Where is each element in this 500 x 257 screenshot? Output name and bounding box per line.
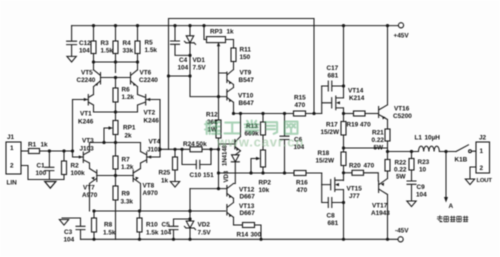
svg-text:10µH: 10µH	[425, 135, 441, 142]
svg-text:R18: R18	[318, 150, 330, 157]
svg-text:J2: J2	[479, 135, 487, 142]
transistor VT6	[131, 62, 159, 95]
svg-text:VT14: VT14	[348, 88, 364, 95]
svg-text:1: 1	[480, 148, 484, 155]
svg-text:1.5k: 1.5k	[145, 47, 158, 54]
wire bootstrap loop right	[312, 19, 315, 116]
transistor VT8	[133, 169, 158, 212]
capacitor C12	[67, 26, 92, 57]
ground (input)	[45, 182, 56, 189]
svg-text:B647: B647	[239, 100, 255, 107]
wire C1/R2 ground run	[21, 166, 64, 180]
svg-text:VT6: VT6	[140, 70, 152, 77]
svg-text:VT7: VT7	[83, 185, 95, 192]
svg-text:2: 2	[10, 163, 14, 170]
svg-text:VT1: VT1	[80, 111, 92, 118]
resistor R7	[113, 143, 134, 176]
resistor R12	[206, 112, 221, 139]
svg-text:2k: 2k	[125, 133, 133, 140]
svg-text:C17: C17	[327, 65, 339, 72]
resistor R10	[137, 211, 159, 239]
potentiometer RP2	[249, 150, 271, 194]
svg-text:104: 104	[161, 230, 172, 237]
resistor R1	[21, 142, 49, 154]
svg-text:VT9: VT9	[240, 70, 252, 77]
ground (C12)	[67, 56, 76, 62]
transistor VT11	[219, 114, 241, 155]
svg-text:A970: A970	[82, 192, 98, 199]
-45V terminal	[395, 228, 409, 242]
ground (C3)	[59, 220, 68, 226]
svg-text:681: 681	[328, 73, 339, 80]
JFET VT1	[73, 95, 94, 126]
svg-text:VT3: VT3	[82, 138, 94, 145]
svg-text:RP2: RP2	[259, 180, 272, 187]
svg-text:VD3: VD3	[224, 170, 230, 182]
svg-text:+45V: +45V	[394, 33, 410, 40]
svg-text:R11: R11	[240, 47, 252, 54]
transistor VT5	[77, 62, 101, 95]
svg-text:R17: R17	[326, 122, 338, 129]
svg-text:5W: 5W	[396, 174, 407, 181]
svg-text:104: 104	[64, 237, 75, 244]
svg-text:K246: K246	[144, 118, 160, 125]
svg-text:151: 151	[203, 172, 214, 179]
resistor R6	[113, 78, 134, 113]
JFET VT4	[141, 139, 162, 169]
resistor R20	[342, 163, 378, 182]
svg-text:RP1: RP1	[123, 125, 136, 132]
watermark line 1	[205, 121, 297, 134]
svg-text:470: 470	[297, 187, 308, 194]
svg-text:1: 1	[10, 145, 14, 152]
svg-text:C2240: C2240	[77, 77, 96, 84]
svg-text:VT4: VT4	[149, 139, 161, 146]
svg-text:J77: J77	[349, 193, 360, 200]
wire VT1 gate riser	[72, 100, 74, 152]
wire VD1 node to VT10 base	[169, 55, 227, 98]
svg-text:1k: 1k	[227, 29, 235, 36]
inductor L1	[388, 135, 457, 152]
resistor R8	[92, 211, 116, 239]
svg-text:R4: R4	[123, 40, 132, 47]
svg-text:D667: D667	[240, 210, 256, 217]
potentiometer RP1	[104, 112, 136, 143]
resistor R21	[372, 129, 391, 152]
resistor R5	[135, 26, 157, 62]
svg-text:15/2W: 15/2W	[321, 129, 340, 136]
wire upper mid rail	[232, 112, 322, 115]
transistor VT13	[227, 203, 255, 226]
svg-text:VT17: VT17	[372, 203, 388, 210]
transistor VT9	[227, 70, 254, 88]
svg-text:-45V: -45V	[395, 228, 409, 235]
wire input node	[48, 149, 83, 157]
transistor VT12	[190, 184, 255, 203]
resistor R24	[175, 141, 219, 152]
svg-text:1.5k: 1.5k	[103, 230, 116, 237]
svg-text:C10: C10	[190, 172, 202, 179]
capacitor C17	[322, 65, 345, 91]
svg-text:7.5V: 7.5V	[198, 230, 212, 237]
svg-text:C2240: C2240	[139, 77, 158, 84]
zener VD2	[184, 189, 211, 240]
svg-text:VD2: VD2	[198, 222, 211, 229]
ground (J2)	[465, 179, 474, 185]
ground (C9)	[407, 201, 416, 207]
svg-text:A1943: A1943	[371, 210, 390, 217]
MOSFET VT15	[322, 173, 363, 200]
wire source rail lower pair	[90, 141, 141, 144]
label protection circuit	[437, 215, 468, 222]
resistor R22	[385, 152, 407, 181]
svg-text:A: A	[449, 203, 454, 210]
svg-text:470: 470	[360, 122, 371, 129]
wire VT5/VT6 base tie	[101, 77, 131, 79]
svg-text:R12: R12	[206, 112, 218, 119]
relay contact K1B	[444, 145, 476, 164]
svg-text:D667: D667	[240, 194, 256, 201]
wire -45V rail	[81, 238, 398, 241]
wire J2 pin2 to ground	[470, 167, 476, 179]
svg-text:R8: R8	[104, 222, 113, 229]
svg-text:1.2k: 1.2k	[121, 164, 134, 171]
svg-text:R22: R22	[395, 160, 407, 167]
svg-text:R24: R24	[183, 141, 195, 148]
svg-text:R14: R14	[237, 232, 249, 239]
svg-text:VD1: VD1	[193, 57, 206, 64]
resistor R17	[321, 122, 347, 149]
svg-text:J1: J1	[7, 134, 15, 141]
svg-text:R9: R9	[122, 191, 131, 198]
wire to protection node A	[444, 152, 454, 211]
svg-text:www.cavr.cn: www.cavr.cn	[216, 135, 304, 150]
MOSFET VT14	[322, 86, 365, 114]
svg-text:1.5k: 1.5k	[101, 48, 114, 55]
svg-text:A970: A970	[143, 190, 159, 197]
wire VT14 drain	[343, 26, 345, 98]
svg-text:R2: R2	[71, 163, 80, 170]
transistor VT17	[371, 179, 390, 240]
svg-text:R5: R5	[145, 40, 154, 47]
svg-text:10: 10	[419, 167, 427, 174]
resistor R11	[231, 40, 251, 70]
wire +45V rail	[72, 24, 399, 27]
resistor R15	[294, 95, 307, 117]
svg-text:VT10: VT10	[238, 93, 254, 100]
capacitor C1	[36, 151, 54, 180]
svg-text:R10: R10	[146, 222, 158, 229]
resistor R19	[344, 111, 378, 129]
wire lower mid rail (gate drive)	[219, 171, 322, 174]
svg-text:C5: C5	[162, 222, 171, 229]
resistor R23	[409, 152, 430, 182]
svg-text:R1: R1	[28, 142, 37, 149]
svg-text:470: 470	[295, 102, 306, 109]
resistor R16	[294, 171, 308, 195]
svg-text:1k: 1k	[41, 142, 49, 149]
svg-text:10k: 10k	[259, 187, 270, 194]
svg-text:C4: C4	[179, 57, 188, 64]
svg-text:104: 104	[178, 65, 189, 72]
svg-text:470: 470	[364, 163, 375, 170]
svg-text:1k: 1k	[161, 178, 169, 185]
capacitor C5	[161, 217, 192, 239]
wire R17/R18 to output	[342, 146, 388, 149]
svg-text:VT13: VT13	[239, 203, 255, 210]
svg-text:VT8: VT8	[143, 183, 155, 190]
svg-text:R6: R6	[122, 87, 131, 94]
wire bootstrap loop left/top	[167, 19, 314, 151]
svg-text:2: 2	[480, 165, 484, 172]
wire feedback riser	[158, 100, 168, 158]
svg-text:0.22: 0.22	[394, 167, 407, 174]
svg-text:R25: R25	[159, 170, 171, 177]
svg-text:100: 100	[36, 170, 47, 177]
svg-text:LIN: LIN	[7, 180, 18, 187]
JFET VT2	[138, 87, 161, 125]
wire mid rail (VT13 base)	[92, 209, 225, 212]
svg-text:300: 300	[251, 232, 262, 239]
svg-text:681: 681	[328, 220, 339, 227]
svg-text:L1: L1	[415, 135, 423, 142]
svg-text:C3: C3	[64, 229, 73, 236]
resistor R25	[159, 149, 178, 184]
svg-text:R15: R15	[294, 95, 306, 102]
resistor R9	[113, 176, 133, 240]
wire VT7/VT8 base tie	[97, 174, 133, 177]
svg-text:R16: R16	[296, 180, 308, 187]
svg-text:LOUT: LOUT	[477, 178, 493, 184]
resistor R4	[113, 26, 134, 62]
diode VD3 1N4148	[223, 144, 240, 183]
svg-text:R7: R7	[122, 157, 131, 164]
resistor R3	[91, 26, 113, 62]
wire source rail upper pair	[94, 110, 138, 113]
svg-text:C8: C8	[327, 213, 336, 220]
svg-text:R3: R3	[101, 40, 110, 47]
svg-text:R20: R20	[349, 163, 361, 170]
JFET VT3	[79, 138, 94, 169]
svg-text:150: 150	[240, 54, 251, 61]
capacitor C6	[280, 114, 305, 174]
svg-text:VT5: VT5	[81, 70, 93, 77]
svg-text:R21: R21	[372, 130, 384, 137]
svg-text:15/2W: 15/2W	[316, 158, 335, 165]
svg-text:7.5V: 7.5V	[193, 65, 207, 72]
svg-text:VT2: VT2	[144, 110, 156, 117]
transistor VT7	[82, 169, 98, 212]
svg-text:VT16: VT16	[394, 106, 410, 113]
ground (R25)	[170, 182, 179, 188]
wire collector node VT5/VT6	[92, 60, 139, 72]
svg-text:K214: K214	[349, 95, 365, 102]
resistor R13	[245, 114, 266, 151]
svg-text:K246: K246	[78, 119, 94, 126]
+45V terminal	[394, 23, 410, 40]
svg-text:R19: R19	[347, 122, 359, 129]
transistor VT10	[227, 88, 254, 114]
svg-text:104: 104	[79, 48, 90, 55]
svg-text:33k: 33k	[123, 48, 134, 55]
svg-text:3.3k: 3.3k	[121, 199, 134, 206]
resistor R18	[316, 148, 347, 181]
capacitor C3	[62, 218, 85, 244]
capacitor C4	[171, 26, 191, 72]
connector J2	[476, 135, 492, 185]
capacitor C9	[407, 181, 427, 201]
svg-text:C5200: C5200	[393, 113, 412, 120]
svg-text:C9: C9	[417, 184, 426, 191]
wire VAS column	[217, 47, 227, 191]
potentiometer RP3	[204, 26, 234, 47]
transistor VT16	[379, 26, 413, 129]
svg-text:B547: B547	[239, 77, 255, 84]
wire output node	[386, 150, 413, 153]
capacitor C8	[322, 185, 344, 227]
wire VT15 source to rail	[342, 190, 345, 240]
svg-text:50k: 50k	[196, 141, 207, 148]
svg-text:0.22: 0.22	[372, 137, 385, 144]
svg-text:100k: 100k	[71, 170, 86, 177]
resistor R2	[62, 151, 86, 180]
capacitor C10	[180, 148, 214, 179]
svg-text:C12: C12	[79, 40, 91, 47]
svg-text:104: 104	[416, 192, 427, 199]
svg-text:VT12: VT12	[239, 187, 255, 194]
wire VT14 source node	[342, 108, 345, 122]
svg-text:R23: R23	[418, 159, 430, 166]
zener VD1	[184, 26, 206, 72]
svg-text:J103: J103	[80, 146, 95, 153]
svg-text:1.5k: 1.5k	[146, 230, 159, 237]
svg-text:5W: 5W	[374, 145, 385, 152]
svg-text:1.2k: 1.2k	[122, 94, 135, 101]
svg-text:C1: C1	[37, 163, 46, 170]
svg-text:VT15: VT15	[347, 186, 363, 193]
connector J1	[6, 134, 21, 187]
resistor R14	[234, 223, 262, 240]
svg-text:K1B: K1B	[455, 157, 468, 164]
svg-text:RP3: RP3	[210, 29, 223, 36]
